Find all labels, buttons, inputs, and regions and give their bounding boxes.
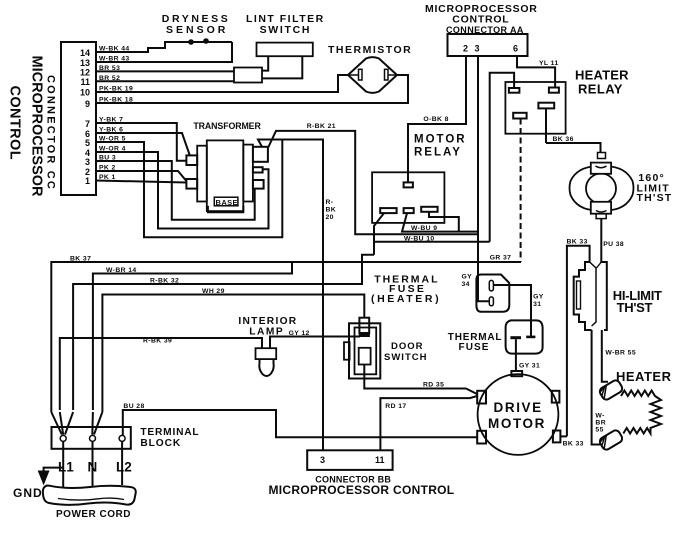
wire YL 11 (AA pin 6 to heater relay) <box>517 56 559 88</box>
svg-text:BASE: BASE <box>216 198 238 207</box>
svg-text:5: 5 <box>85 138 90 148</box>
drive motor body <box>478 374 559 455</box>
terminal block box <box>52 427 131 449</box>
transformer core box <box>207 140 244 211</box>
transformer right tab top <box>253 147 268 162</box>
svg-text:W-OR 5: W-OR 5 <box>99 136 126 143</box>
wire PK-BK 18 (pin 9 to thermistor right) <box>96 75 408 104</box>
interior lamp bulb <box>259 359 273 376</box>
svg-text:1: 1 <box>85 176 90 186</box>
wire W-BK 44 (pin 14 to dryness sensor) <box>96 42 232 53</box>
motor relay bottom terminal 2 <box>404 208 414 213</box>
svg-text:LAMP: LAMP <box>249 327 284 338</box>
connector BB pin numbers <box>320 455 385 465</box>
svg-text:DRIVE: DRIVE <box>494 400 543 415</box>
wire heater relay blade drop (joins GR37 line) <box>520 119 522 263</box>
svg-text:W-OR 4: W-OR 4 <box>99 146 126 153</box>
label DRYNESS SENSOR <box>162 13 231 36</box>
svg-text:BU 28: BU 28 <box>123 403 144 410</box>
svg-text:FUSE: FUSE <box>459 342 490 353</box>
label TERMINAL BLOCK <box>140 427 199 449</box>
svg-text:SWITCH: SWITCH <box>384 352 427 363</box>
label W-BR 55 <box>605 350 636 357</box>
wire funnels into terminal N <box>92 412 102 435</box>
svg-text:3: 3 <box>85 157 90 167</box>
wire W-OR 5 (wraps under transformer to right-top tab) <box>96 136 282 238</box>
svg-text:WH 29: WH 29 <box>202 288 225 295</box>
transformer left tab upper <box>186 155 197 165</box>
connector CC pin numbers <box>80 48 90 186</box>
heater relay box <box>505 82 565 134</box>
heater top connector <box>598 379 624 401</box>
svg-text:14: 14 <box>80 48 90 58</box>
svg-text:W-BR 55: W-BR 55 <box>605 350 636 357</box>
wire PU 38 (160 stat to hi-limit) <box>601 219 624 257</box>
dryness sensor contacts <box>188 38 209 45</box>
svg-text:MICROPROCESSOR: MICROPROCESSOR <box>29 56 45 198</box>
label CONNECTOR CC (rotated) <box>45 75 57 191</box>
terminal block terminals <box>60 435 125 441</box>
svg-text:7: 7 <box>85 119 90 129</box>
label MICROPROCESSOR CONTROL (left, rotated) <box>7 56 45 198</box>
wire PK-BK 19 (pin 10 to thermistor left) <box>96 75 348 93</box>
label GND <box>13 486 43 500</box>
wire W-OR 4 (wraps under transformer to right-mid tab) <box>96 146 269 229</box>
heater element coil <box>621 391 661 434</box>
svg-text:W-BK 44: W-BK 44 <box>99 46 130 53</box>
drive motor left bottom tab <box>477 431 486 444</box>
svg-text:HEATER: HEATER <box>575 68 629 83</box>
wire RD 35 (door switch to drive motor) <box>364 365 477 395</box>
svg-text:MOTOR: MOTOR <box>488 416 546 431</box>
svg-text:PK 2: PK 2 <box>99 165 116 172</box>
label THERMISTOR <box>328 44 412 56</box>
wire hi-limit left leg to heater bottom connector <box>592 330 600 445</box>
svg-text:BR 52: BR 52 <box>99 75 120 82</box>
label MICROPROCESSOR CONTROL (top right) <box>425 3 538 35</box>
160 limit thermostat body <box>570 166 634 211</box>
svg-text:SENSOR: SENSOR <box>166 24 228 36</box>
interior lamp socket <box>256 348 277 359</box>
ground arrow <box>38 471 48 484</box>
svg-text:TH'ST: TH'ST <box>637 192 673 204</box>
label GR 37 <box>490 255 512 262</box>
svg-text:11: 11 <box>375 455 385 465</box>
thermistor right pin <box>385 69 396 80</box>
svg-text:PU 38: PU 38 <box>603 241 624 248</box>
wire BK 37 (L1 riser to heater relay blade line) <box>51 256 521 413</box>
wire W-BU 9 (terminal 2 to pin3 bus) <box>402 213 478 232</box>
transformer left plate <box>197 146 207 202</box>
heater relay right terminal <box>549 88 559 93</box>
svg-text:HEATER: HEATER <box>616 369 672 384</box>
svg-text:R-BK 21: R-BK 21 <box>307 123 336 130</box>
wire W-BR 43 (pin 13, sensor return) <box>96 42 232 63</box>
svg-text:PK-BK 18: PK-BK 18 <box>99 97 133 104</box>
label HEATER <box>616 369 672 384</box>
connector AA box <box>448 34 528 56</box>
svg-text:MOTOR: MOTOR <box>414 134 467 146</box>
svg-text:GY: GY <box>462 274 473 281</box>
drive motor right top tab <box>552 391 560 403</box>
label DRIVE MOTOR <box>488 400 546 431</box>
svg-text:GR 37: GR 37 <box>490 255 512 262</box>
svg-text:TERMINAL: TERMINAL <box>140 427 199 438</box>
svg-text:13: 13 <box>80 58 90 68</box>
svg-text:BK 37: BK 37 <box>70 256 91 263</box>
transformer BASE box <box>208 197 243 212</box>
svg-text:W-BR 14: W-BR 14 <box>106 267 137 274</box>
wire heater relay left terminal riser <box>490 73 514 242</box>
svg-text:GY 31: GY 31 <box>519 362 540 369</box>
svg-text:R-BK 39: R-BK 39 <box>143 338 172 345</box>
power cord outline <box>43 486 136 505</box>
svg-text:34: 34 <box>462 281 470 288</box>
label 160 LIMIT TH'ST <box>637 172 673 204</box>
svg-text:3: 3 <box>475 44 480 54</box>
wire O-BK 8 (AA pin 2 to motor relay top terminal) <box>408 56 466 182</box>
svg-text:RELAY: RELAY <box>578 82 623 97</box>
label POWER CORD <box>56 509 131 520</box>
wire Y-BK 7 (to transformer upper-left tab) <box>96 117 186 161</box>
svg-text:GY: GY <box>533 294 544 301</box>
transformer right tab middle <box>253 167 263 172</box>
wire R-BK 21 (transformer right-top tab to middle bus) <box>268 123 478 234</box>
wire BK 36 (relay contact to 160 thermostat) <box>546 136 601 152</box>
svg-text:2: 2 <box>463 44 468 54</box>
label HI-LIMIT TH'ST <box>613 288 662 315</box>
wire W-BR 14 (N riser) <box>93 262 292 410</box>
svg-text:W-BU 9: W-BU 9 <box>411 225 437 232</box>
transformer right plate <box>243 145 253 202</box>
connector BB box <box>307 450 392 470</box>
motor relay bottom terminal 3 <box>421 207 437 212</box>
svg-text:BK: BK <box>326 207 337 214</box>
door switch left tab <box>344 342 350 360</box>
svg-text:L2: L2 <box>116 460 132 475</box>
wire GY 12 (lamp to door switch) <box>270 330 360 348</box>
svg-text:W-BU 10: W-BU 10 <box>404 235 435 242</box>
wire BK 33 bracket (motor to hi-limit) <box>567 239 590 437</box>
thermistor body <box>348 57 397 93</box>
wire hi-limit right leg to heater top connector <box>602 330 608 382</box>
motor relay bottom terminal 1 <box>380 208 396 213</box>
label MICROPROCESSOR CONTROL (bottom) <box>269 483 455 497</box>
svg-text:TRANSFORMER: TRANSFORMER <box>193 121 261 131</box>
svg-text:Y-BK 6: Y-BK 6 <box>99 127 123 134</box>
svg-text:N: N <box>88 460 98 475</box>
svg-text:6: 6 <box>513 44 518 54</box>
thermistor left pin <box>350 69 363 80</box>
svg-text:BU 3: BU 3 <box>99 155 116 162</box>
connector CC box <box>61 42 96 195</box>
wire funnels into terminal L1 <box>51 412 73 435</box>
wire motor relay terminal 3 drop <box>429 212 459 232</box>
svg-text:W-BR 43: W-BR 43 <box>99 56 130 63</box>
label HEATER RELAY <box>575 68 629 97</box>
svg-text:PK 1: PK 1 <box>99 174 116 181</box>
svg-text:GY 12: GY 12 <box>289 330 310 337</box>
transformer left tab lower <box>186 179 197 189</box>
svg-text:PK-BK 19: PK-BK 19 <box>99 86 133 93</box>
drive motor top terminal <box>511 371 522 376</box>
motor relay box <box>372 172 444 223</box>
wire BU 3 (wraps under transformer to right-bottom tab) <box>96 155 255 220</box>
wire R-BK 20 (tab-top line down to connector BB pin 3) <box>282 140 336 451</box>
door switch outer box <box>349 323 380 378</box>
lint filter connector box <box>234 68 262 83</box>
drive motor left top tab <box>477 391 486 404</box>
svg-text:55: 55 <box>595 427 603 434</box>
lint filter switch box <box>257 43 313 57</box>
label LINT FILTER SWITCH <box>246 13 325 36</box>
wire BR 53 (pin 12 to lint filter box) <box>96 65 234 72</box>
svg-text:CONTROL: CONTROL <box>452 14 509 26</box>
svg-text:R-BK 32: R-BK 32 <box>150 277 179 284</box>
wire RD 17 (connector BB pin 11 to drive motor) <box>380 396 477 450</box>
wire R-BK 39 (L1 riser to interior lamp) <box>60 338 262 411</box>
wire GY 31 (thermal fuse to motor top) <box>516 339 540 371</box>
wire Y-BK 6 (to transformer upper-left tab) <box>96 127 190 157</box>
wire GY 34 (AA pin 3 down to thermal fuse heater) <box>462 56 490 301</box>
svg-text:DOOR: DOOR <box>391 341 424 352</box>
svg-text:R-: R- <box>326 199 334 206</box>
wire GY 31 (fuse heater to motor thermal fuse) <box>493 285 543 337</box>
svg-text:BK 33: BK 33 <box>563 441 584 448</box>
svg-text:SWITCH: SWITCH <box>260 24 312 36</box>
wire BR 52 (pin 11 to lint filter box) <box>96 75 234 82</box>
door switch inner box <box>359 348 371 365</box>
hi-limit thermostat body <box>574 256 607 330</box>
svg-text:GND: GND <box>13 486 43 500</box>
motor relay top terminal <box>404 182 413 187</box>
label THERMAL FUSE <box>448 332 502 353</box>
160 thermostat top terminal <box>591 153 611 174</box>
wire lint filter switch left leg <box>262 56 268 70</box>
svg-text:RD 35: RD 35 <box>423 382 444 389</box>
connector AA pin numbers <box>463 44 518 54</box>
heater bottom connector <box>598 429 624 451</box>
svg-text:BR 53: BR 53 <box>99 65 120 72</box>
svg-text:12: 12 <box>80 68 90 78</box>
svg-text:20: 20 <box>326 214 334 221</box>
svg-text:(HEATER): (HEATER) <box>371 293 441 305</box>
labels L1 N L2 <box>58 460 132 475</box>
label CONNECTOR BB <box>315 475 391 485</box>
wire BK 33 (motor right tab to riser) <box>560 436 583 447</box>
wire PK 2 (to transformer lower-left tab) <box>96 165 186 182</box>
svg-text:RD 17: RD 17 <box>385 403 406 410</box>
label TRANSFORMER <box>193 121 261 131</box>
svg-text:POWER CORD: POWER CORD <box>56 509 131 520</box>
svg-text:31: 31 <box>533 301 541 308</box>
svg-text:O-BK 8: O-BK 8 <box>423 116 448 123</box>
svg-text:RELAY: RELAY <box>414 147 462 159</box>
label DOOR SWITCH <box>384 341 427 363</box>
svg-text:INTERIOR: INTERIOR <box>238 316 297 327</box>
wire L2 down to power cord <box>121 441 123 485</box>
thermal fuse (heater) body <box>476 275 509 312</box>
drive motor right bottom tab <box>553 431 561 443</box>
wire R-BK 32 riser junction to relay region <box>373 242 375 255</box>
heater relay left terminal <box>509 88 520 93</box>
svg-text:3: 3 <box>320 455 325 465</box>
thermal fuse (motor) body <box>506 320 543 353</box>
svg-text:BR: BR <box>595 420 606 427</box>
svg-text:THERMISTOR: THERMISTOR <box>328 44 412 56</box>
wire N down to power cord <box>92 441 94 487</box>
160 thermostat bottom terminal <box>591 202 611 219</box>
wire R-BK 32 (L1 riser to motor relay area) <box>73 255 374 410</box>
svg-text:Y-BK 7: Y-BK 7 <box>99 117 123 124</box>
svg-text:BK 33: BK 33 <box>567 239 588 246</box>
svg-text:CONNECTOR CC: CONNECTOR CC <box>45 75 57 191</box>
svg-text:YL 11: YL 11 <box>539 60 559 67</box>
label INTERIOR LAMP <box>238 316 297 338</box>
wire lint filter switch right leg <box>262 56 302 78</box>
svg-text:BK 36: BK 36 <box>553 136 574 143</box>
svg-text:W-: W- <box>595 413 604 420</box>
wire BU 28 (terminal block L2 to drive motor) <box>123 403 477 437</box>
wire WH 29 (N riser to door switch top) <box>102 288 364 412</box>
wire L1 down to power cord <box>62 441 64 487</box>
label MOTOR RELAY <box>414 134 467 159</box>
transformer right tab bottom <box>253 180 264 189</box>
heater relay blade <box>513 113 526 119</box>
svg-text:TH'ST: TH'ST <box>617 300 653 315</box>
svg-text:10: 10 <box>80 88 90 98</box>
heater relay center contact <box>538 103 554 143</box>
svg-text:11: 11 <box>80 77 90 87</box>
wire W-BU 10 (terminal 1 to heater relay left riser) <box>374 213 490 242</box>
svg-text:MICROPROCESSOR CONTROL: MICROPROCESSOR CONTROL <box>269 483 455 497</box>
label THERMAL FUSE (HEATER) <box>371 274 441 306</box>
label W- BR 55 (stacked) <box>595 413 606 434</box>
svg-text:BLOCK: BLOCK <box>140 438 181 449</box>
wire PK 1 (to transformer lower-left tab) <box>96 174 186 183</box>
svg-text:CONTROL: CONTROL <box>7 86 23 161</box>
ground wire <box>44 468 64 471</box>
door switch plunger <box>359 318 370 337</box>
svg-text:9: 9 <box>85 99 90 109</box>
